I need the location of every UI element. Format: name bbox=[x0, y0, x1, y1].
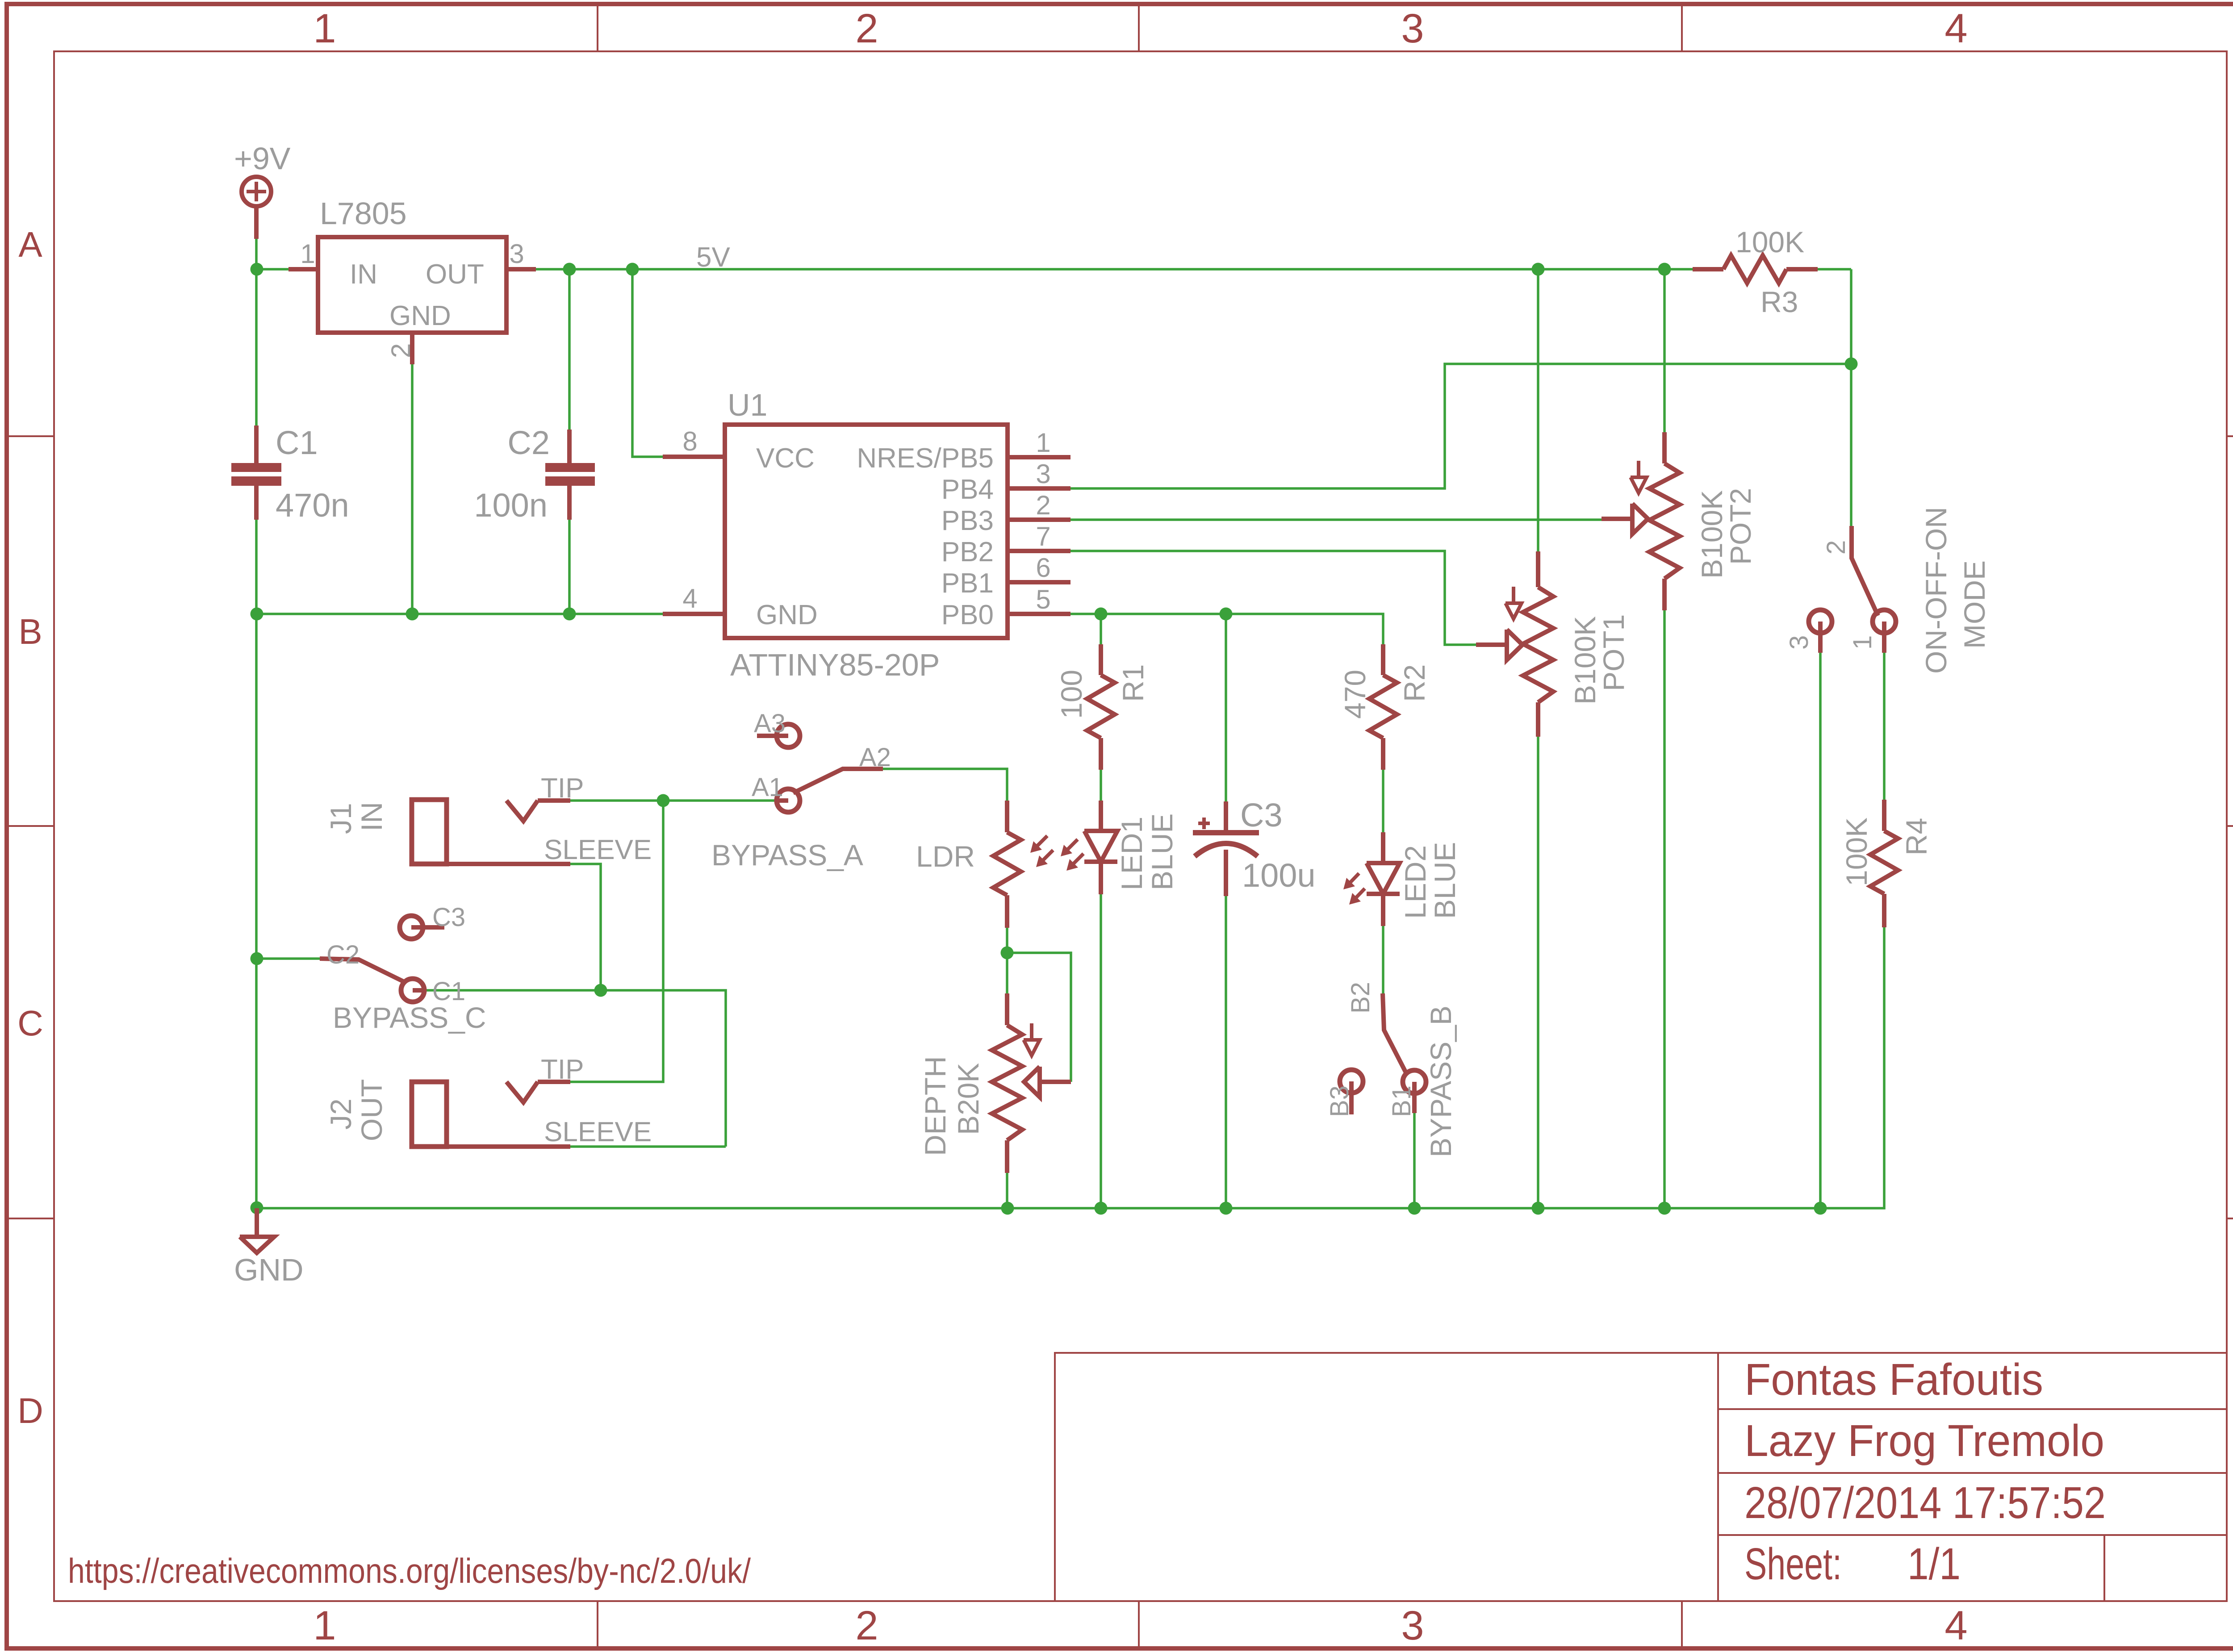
POT1 wiper triangle bbox=[1507, 630, 1522, 660]
junction GND rail at BYPASS_B bbox=[1408, 1202, 1421, 1215]
wire PB2 to POT1 wiper bbox=[1071, 551, 1476, 645]
junction GND rail at POT1 bbox=[1532, 1202, 1545, 1215]
title block vertical divider bbox=[1717, 1353, 1719, 1601]
LDR top lead bbox=[1005, 801, 1009, 832]
DEPTH pot adjustment arrow bbox=[1030, 1023, 1033, 1040]
wire left vertical GND low bbox=[255, 959, 258, 1208]
capacitor C3 polarized bbox=[1224, 801, 1228, 830]
svg-text:5V: 5V bbox=[696, 242, 730, 273]
svg-text:A1: A1 bbox=[752, 773, 783, 802]
junction GND rail C2 bbox=[563, 608, 576, 621]
svg-text:LED2: LED2 bbox=[1399, 845, 1432, 919]
junction GND rail left bbox=[251, 608, 263, 621]
LDR bottom lead bbox=[1005, 895, 1009, 928]
svg-text:C1: C1 bbox=[276, 424, 318, 461]
resistor R4 bbox=[1870, 831, 1898, 894]
POT1 adjustment arrow bbox=[1512, 587, 1515, 603]
svg-text:100n: 100n bbox=[474, 487, 548, 524]
wire 5V to POT2 top bbox=[1663, 269, 1666, 432]
title block outline bbox=[1055, 1353, 2227, 1601]
svg-text:IN: IN bbox=[355, 802, 388, 831]
svg-text:+9V: +9V bbox=[234, 141, 291, 176]
wire J1 TIP to J2 TIP bbox=[570, 801, 663, 1082]
svg-text:C: C bbox=[17, 1003, 43, 1043]
J1 TIP pin lead bbox=[538, 798, 570, 803]
junction 5V at C2 bbox=[563, 263, 576, 276]
wire PB0 to C3 plus bbox=[1225, 614, 1227, 801]
U1 pin 6 lead bbox=[1008, 580, 1071, 584]
wire 5V to U1 VCC pin 8 bbox=[632, 269, 663, 457]
wire 5V to C2 top bbox=[568, 269, 571, 430]
wire BYPASS_B pin B1 to GND rail bbox=[1413, 1113, 1416, 1208]
svg-text:28/07/2014 17:57:52: 28/07/2014 17:57:52 bbox=[1744, 1478, 2106, 1528]
BYPASS_B pin B3 contact bbox=[1340, 1070, 1363, 1093]
BYPASS_A pin A1 tick bbox=[777, 798, 788, 803]
frame column tick 3|4 bottom bbox=[1681, 1601, 1683, 1648]
wire LED1 cathode to GND rail bbox=[1100, 894, 1102, 1208]
capacitor C1 bbox=[254, 426, 259, 463]
wire 5V to POT1 top bbox=[1537, 269, 1539, 551]
wire POT2 bottom to GND rail bbox=[1663, 610, 1666, 1208]
L7805 pin 3 lead bbox=[506, 267, 536, 271]
junction GND rail at DEPTH bbox=[1001, 1202, 1014, 1215]
wire C1 bottom to GND rail bbox=[255, 520, 258, 614]
svg-text:100K: 100K bbox=[1735, 225, 1804, 259]
resistor R3 right lead bbox=[1786, 267, 1818, 271]
junction GND rail at LED1 bbox=[1095, 1202, 1108, 1215]
MODE pin 1 contact bbox=[1873, 610, 1896, 633]
svg-text:1: 1 bbox=[313, 6, 336, 51]
svg-text:B: B bbox=[18, 612, 42, 651]
svg-text:8: 8 bbox=[682, 426, 697, 456]
wire DEPTH bottom to GND rail bbox=[1006, 1173, 1008, 1208]
DEPTH pot wiper lead bbox=[1040, 1080, 1071, 1084]
resistor R2 bottom lead bbox=[1381, 738, 1385, 770]
junction 5V at VCC drop bbox=[626, 263, 639, 276]
BYPASS_A pin A1 contact bbox=[777, 789, 800, 812]
frame row tick B|C left bbox=[7, 825, 54, 827]
svg-text:GND: GND bbox=[234, 1252, 304, 1287]
junction GND rail at GND symbol bbox=[251, 1201, 263, 1214]
POT2 wiper lead bbox=[1602, 517, 1632, 521]
POT2 top lead bbox=[1662, 432, 1667, 463]
wire R1 to LED1 bbox=[1100, 770, 1102, 801]
resistor R1 bottom lead bbox=[1099, 738, 1103, 770]
LDR photoresistor bbox=[993, 832, 1021, 895]
svg-text:4: 4 bbox=[682, 584, 697, 613]
svg-text:BYPASS_A: BYPASS_A bbox=[711, 839, 863, 872]
svg-text:DEPTH: DEPTH bbox=[919, 1056, 952, 1156]
frame row tick A|B right bbox=[2227, 435, 2233, 437]
wire GND bottom rail to R4 bottom bbox=[257, 927, 1884, 1208]
MODE pin 1 stub bbox=[1882, 622, 1886, 653]
frame row tick C|D right bbox=[2227, 1218, 2233, 1219]
potentiometer POT2 B100K bbox=[1649, 463, 1680, 579]
svg-text:SLEEVE: SLEEVE bbox=[544, 834, 652, 865]
potentiometer DEPTH B20K bbox=[992, 1025, 1022, 1140]
junction 5V at POT1 bbox=[1532, 263, 1545, 276]
POT2 bottom lead bbox=[1662, 579, 1667, 610]
svg-text:1: 1 bbox=[300, 239, 315, 269]
resistor R3 bbox=[1723, 255, 1786, 283]
wire C3 minus to GND rail bbox=[1225, 896, 1227, 1208]
wire J1 TIP to BYPASS_A pin A1 bbox=[570, 799, 777, 802]
frame column tick 2|3 top bbox=[1138, 4, 1140, 51]
J1 SLEEVE pin lead bbox=[447, 862, 570, 866]
svg-text:3: 3 bbox=[1401, 1603, 1424, 1648]
resistor R3 left lead bbox=[1693, 267, 1723, 271]
frame row tick C|D left bbox=[7, 1218, 54, 1219]
svg-text:4: 4 bbox=[1944, 6, 1967, 51]
LED2 cathode lead bbox=[1381, 894, 1385, 926]
svg-text:LDR: LDR bbox=[916, 840, 975, 873]
frame column tick 1|2 bottom bbox=[597, 1601, 598, 1648]
resistor R4 bottom lead bbox=[1882, 894, 1886, 927]
resistor R4 top lead bbox=[1882, 800, 1886, 831]
DEPTH pot bottom lead bbox=[1005, 1140, 1009, 1173]
U1 pin 1 lead bbox=[1008, 455, 1071, 459]
frame column tick 3|4 top bbox=[1681, 4, 1683, 51]
BYPASS_C pin C1 contact bbox=[401, 979, 424, 1002]
svg-text:2: 2 bbox=[1036, 490, 1050, 520]
title block row divider 2 bbox=[1718, 1472, 2227, 1474]
svg-text:C2: C2 bbox=[507, 424, 550, 461]
wire left vertical to C1 top bbox=[255, 269, 258, 426]
wire GND to BYPASS_C pin C2 bbox=[257, 957, 320, 960]
resistor R2 bbox=[1369, 675, 1397, 738]
svg-text:LED1: LED1 bbox=[1115, 817, 1148, 890]
wire regulator GND pin down bbox=[411, 364, 414, 614]
wire PB4 net bbox=[1071, 364, 1851, 488]
svg-text:3: 3 bbox=[1036, 459, 1050, 489]
LDR light arrows bbox=[1035, 836, 1047, 848]
svg-text:B100K: B100K bbox=[1568, 616, 1602, 705]
junction PB0 at C3 bbox=[1220, 608, 1233, 621]
wire PB0 to R1 top bbox=[1100, 614, 1102, 644]
DEPTH pot top lead bbox=[1005, 993, 1009, 1025]
frame row tick B|C right bbox=[2227, 825, 2233, 827]
wire left vertical GND mid bbox=[255, 614, 258, 959]
junction LDR / DEPTH wiper bbox=[1001, 947, 1014, 959]
switch MODE lever bbox=[1852, 526, 1878, 616]
svg-text:OUT: OUT bbox=[426, 259, 484, 290]
POT2 adjustment arrow bbox=[1637, 461, 1640, 477]
wire MODE pin 3 to GND rail bbox=[1819, 653, 1822, 1208]
svg-text:470: 470 bbox=[1338, 670, 1372, 719]
J2 SLEEVE pin lead bbox=[446, 1144, 570, 1149]
BYPASS_B pin B1 stub bbox=[1412, 1082, 1417, 1113]
MODE pin 3 stub bbox=[1818, 622, 1823, 653]
svg-text:1: 1 bbox=[1848, 635, 1877, 650]
svg-text:BLUE: BLUE bbox=[1428, 842, 1461, 919]
svg-text:PB3: PB3 bbox=[941, 505, 994, 536]
svg-text:J1: J1 bbox=[324, 803, 357, 834]
DEPTH pot wiper triangle bbox=[1024, 1067, 1040, 1097]
svg-text:C2: C2 bbox=[326, 940, 360, 969]
svg-text:J2: J2 bbox=[324, 1098, 357, 1130]
svg-text:2: 2 bbox=[855, 6, 878, 51]
svg-text:R4: R4 bbox=[1900, 818, 1933, 855]
svg-text:TIP: TIP bbox=[541, 773, 584, 804]
svg-text:PB1: PB1 bbox=[941, 568, 994, 599]
BYPASS_A pin A3 stub bbox=[757, 734, 788, 738]
wire BYPASS_A pin A2 to LDR top bbox=[883, 769, 1007, 801]
svg-text:PB4: PB4 bbox=[941, 474, 994, 505]
U1 pin 3 lead bbox=[1008, 486, 1071, 491]
svg-text:R2: R2 bbox=[1398, 664, 1431, 702]
svg-text:6: 6 bbox=[1036, 553, 1050, 583]
BYPASS_B pin B1 contact bbox=[1403, 1070, 1426, 1093]
wire 5V rail bbox=[536, 268, 1693, 271]
svg-text:3: 3 bbox=[1785, 635, 1814, 650]
svg-text:5: 5 bbox=[1036, 584, 1050, 614]
svg-text:BYPASS_B: BYPASS_B bbox=[1424, 1005, 1457, 1157]
frame row tick A|B left bbox=[7, 435, 54, 437]
wire R3 right stub bbox=[1818, 268, 1851, 271]
svg-text:TIP: TIP bbox=[541, 1054, 584, 1085]
svg-text:A3: A3 bbox=[754, 709, 786, 738]
resistor R1 bbox=[1087, 675, 1115, 738]
svg-text:IN: IN bbox=[350, 259, 377, 290]
svg-text:Lazy Frog Tremolo: Lazy Frog Tremolo bbox=[1744, 1416, 2104, 1466]
junction TIP / A1 node bbox=[657, 794, 670, 807]
svg-text:OUT: OUT bbox=[355, 1079, 388, 1141]
L7805 pin 2 lead bbox=[410, 333, 414, 364]
POT1 wiper lead bbox=[1476, 642, 1507, 647]
LED2 light arrows bbox=[1348, 873, 1359, 885]
switch BYPASS_A lever bbox=[793, 769, 883, 793]
svg-text:1/1: 1/1 bbox=[1907, 1539, 1961, 1589]
wire PB3 to POT2 wiper bbox=[1071, 518, 1602, 521]
BYPASS_C pin C3 stub bbox=[411, 925, 444, 930]
svg-text:VCC: VCC bbox=[756, 443, 815, 474]
junction GND rail regulator pin 2 bbox=[406, 608, 419, 621]
svg-text:NRES/PB5: NRES/PB5 bbox=[857, 443, 994, 474]
MODE pin 3 contact bbox=[1809, 610, 1832, 633]
J2 TIP pin lead bbox=[538, 1080, 570, 1084]
wire J2 SLEEVE bbox=[570, 1145, 726, 1148]
wire MODE pin 1 to R4 top bbox=[1883, 653, 1886, 800]
wire R3 right to MODE pin 2 bbox=[1850, 269, 1852, 526]
wire C2 bottom to GND rail bbox=[568, 520, 571, 614]
junction +9V / regulator IN bbox=[251, 263, 263, 276]
LED1 anode lead bbox=[1099, 801, 1103, 831]
svg-text:7: 7 bbox=[1036, 521, 1050, 551]
BYPASS_C pin C3 contact bbox=[400, 916, 423, 939]
LED LED1 bbox=[1084, 831, 1117, 862]
svg-text:100K: 100K bbox=[1840, 818, 1873, 886]
svg-text:2: 2 bbox=[855, 1603, 878, 1648]
title block row divider 1 bbox=[1718, 1408, 2227, 1410]
wire GND rail to U1 pin 4 bbox=[257, 613, 663, 615]
BYPASS_C pin C1 tick bbox=[413, 988, 424, 993]
svg-text:POT1: POT1 bbox=[1597, 614, 1630, 691]
capacitor C2 bbox=[567, 430, 572, 463]
junction GND rail at MODE pin 3 bbox=[1814, 1202, 1827, 1215]
wire +9V to IN node bbox=[255, 239, 258, 269]
svg-text:POT2: POT2 bbox=[1724, 488, 1757, 565]
junction SLEEVE / C1 node bbox=[594, 984, 607, 997]
voltage regulator L7805 body bbox=[318, 237, 506, 333]
svg-text:Fontas Fafoutis: Fontas Fafoutis bbox=[1744, 1355, 2043, 1405]
wire LDR bottom to DEPTH top bbox=[1006, 928, 1008, 993]
wire J1 SLEEVE down bbox=[570, 864, 601, 990]
junction 5V at POT2 and R3 bbox=[1658, 263, 1671, 276]
svg-text:L7805: L7805 bbox=[320, 196, 407, 231]
LED1 cathode lead bbox=[1099, 862, 1103, 894]
svg-text:B20K: B20K bbox=[952, 1063, 985, 1135]
svg-text:3: 3 bbox=[1401, 6, 1424, 51]
resistor R1 top lead bbox=[1099, 644, 1103, 675]
jack J2 TIP contact bbox=[506, 1082, 538, 1102]
IC U1 ATTINY85-20P body bbox=[725, 425, 1008, 638]
jack J1 TIP contact bbox=[506, 801, 538, 821]
svg-text:BLUE: BLUE bbox=[1146, 813, 1179, 890]
svg-text:R1: R1 bbox=[1116, 664, 1150, 702]
svg-text:B100K: B100K bbox=[1695, 490, 1728, 579]
POT1 top lead bbox=[1536, 551, 1540, 587]
title block sheet cell divider bbox=[2103, 1535, 2105, 1601]
junction GND rail at C3 bbox=[1220, 1202, 1233, 1215]
svg-text:https://creativecommons.org/li: https://creativecommons.org/licenses/by-… bbox=[68, 1551, 751, 1590]
svg-text:MODE: MODE bbox=[1958, 560, 1991, 649]
svg-text:4: 4 bbox=[1944, 1603, 1967, 1648]
svg-text:BYPASS_C: BYPASS_C bbox=[333, 1001, 486, 1034]
U1 pin 7 lead bbox=[1008, 549, 1071, 553]
+9V pin lead bbox=[254, 206, 259, 239]
svg-text:ATTINY85-20P: ATTINY85-20P bbox=[730, 647, 940, 682]
wire BYPASS_C pin C1 to J2 SLEEVE bbox=[424, 990, 726, 1147]
wire IN node to regulator pin 1 bbox=[257, 268, 289, 271]
U1 pin 4 lead bbox=[663, 612, 725, 616]
svg-text:A2: A2 bbox=[859, 743, 891, 772]
wire PB0 net to R2 bbox=[1071, 614, 1383, 644]
svg-text:3: 3 bbox=[509, 239, 524, 269]
svg-text:PB0: PB0 bbox=[941, 600, 994, 630]
switch BYPASS_C lever bbox=[320, 959, 405, 982]
LED2 anode lead bbox=[1381, 832, 1385, 863]
POT2 wiper triangle bbox=[1632, 504, 1648, 534]
wire R2 to LED2 bbox=[1382, 770, 1384, 832]
svg-text:1: 1 bbox=[313, 1603, 336, 1648]
svg-text:A: A bbox=[18, 225, 42, 264]
U1 pin 2 lead bbox=[1008, 517, 1071, 522]
svg-text:PB2: PB2 bbox=[941, 537, 994, 567]
svg-text:B1: B1 bbox=[1387, 1085, 1416, 1117]
BYPASS_A pin A3 contact bbox=[777, 724, 800, 747]
resistor R2 top lead bbox=[1381, 644, 1385, 675]
U1 pin 5 lead bbox=[1008, 612, 1071, 616]
junction PB0 at R1 bbox=[1095, 608, 1108, 621]
svg-text:GND: GND bbox=[756, 600, 818, 630]
svg-text:SLEEVE: SLEEVE bbox=[544, 1117, 652, 1147]
frame column tick 1|2 top bbox=[597, 4, 598, 51]
frame column tick 2|3 bottom bbox=[1138, 1601, 1140, 1648]
svg-text:1: 1 bbox=[1036, 428, 1050, 458]
+9V supply symbol bbox=[242, 177, 271, 206]
svg-text:C3: C3 bbox=[1240, 797, 1283, 834]
wire LDR bottom to DEPTH wiper bbox=[1007, 953, 1071, 1082]
svg-text:2: 2 bbox=[386, 343, 416, 358]
svg-text:ON-OFF-ON: ON-OFF-ON bbox=[1919, 507, 1953, 674]
svg-text:470n: 470n bbox=[276, 487, 349, 524]
LED LED2 bbox=[1367, 863, 1400, 894]
junction GND rail at POT2 bbox=[1658, 1202, 1671, 1215]
title block row divider 3 bbox=[1718, 1534, 2227, 1536]
svg-text:B3: B3 bbox=[1325, 1085, 1354, 1117]
svg-text:B2: B2 bbox=[1346, 982, 1375, 1014]
junction GND at BYPASS_C bbox=[251, 952, 263, 965]
wire LED2 cathode to BYPASS_B pin B2 bbox=[1382, 926, 1384, 993]
U1 pin 8 lead bbox=[663, 455, 725, 459]
jack J1 body bbox=[412, 800, 447, 864]
svg-text:U1: U1 bbox=[728, 388, 767, 422]
svg-text:100: 100 bbox=[1055, 670, 1088, 719]
junction PB4 / R3 / MODE bbox=[1845, 358, 1858, 371]
svg-text:2: 2 bbox=[1822, 540, 1851, 555]
svg-text:D: D bbox=[17, 1391, 43, 1431]
wire POT1 bottom to GND rail bbox=[1537, 737, 1539, 1208]
potentiometer POT1 B100K bbox=[1523, 587, 1553, 702]
BYPASS_B pin B3 stub bbox=[1349, 1081, 1354, 1114]
POT1 bottom lead bbox=[1536, 702, 1540, 737]
jack J2 body bbox=[412, 1082, 447, 1147]
LED1 light arrows bbox=[1065, 839, 1078, 852]
svg-text:GND: GND bbox=[389, 300, 451, 331]
svg-text:R3: R3 bbox=[1760, 285, 1798, 318]
switch BYPASS_B lever bbox=[1383, 993, 1407, 1075]
svg-text:100u: 100u bbox=[1242, 857, 1316, 894]
svg-text:Sheet:: Sheet: bbox=[1744, 1539, 1842, 1589]
ground symbol bbox=[255, 1208, 259, 1236]
L7805 pin 1 lead bbox=[289, 267, 318, 271]
svg-text:C3: C3 bbox=[432, 903, 465, 932]
